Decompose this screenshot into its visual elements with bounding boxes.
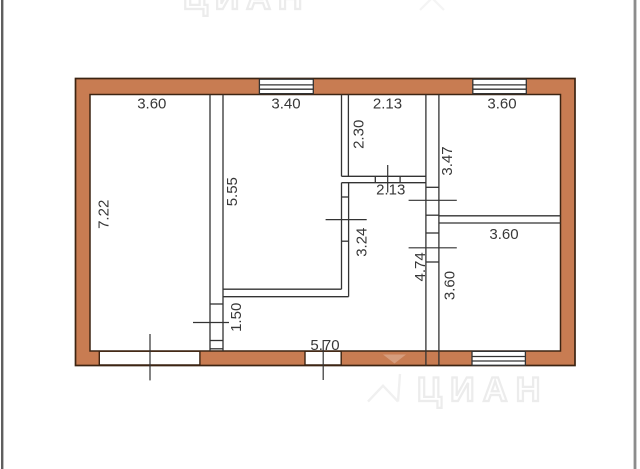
svg-text:5.70: 5.70 [310, 337, 339, 354]
door opening bottom-left (in bottom wall) [99, 351, 200, 366]
door jamb left [374, 176, 376, 182]
horizontal wall between 3.40 room and lower hall (y=289.2/296.7) [223, 289, 349, 297]
watermark logo mountain [368, 374, 400, 402]
dimension tick for opening A (x=150) [149, 334, 151, 380]
door jamb right [399, 176, 401, 182]
watermark top remnant letters [183, 0, 444, 17]
interior wall W2 (vertical x=341.5/348.4, upper part) [342, 95, 349, 177]
window top-left (3.40 room) [259, 79, 313, 94]
frame line left [1, 0, 3, 469]
window top-right (3.60 room) [473, 79, 527, 94]
W1 hatch rung 2 [210, 340, 223, 342]
interior wall W1 (left partition, vertical x=210/223) [210, 95, 223, 352]
door opening bottom-center (in bottom wall, 5.70 mark) [305, 351, 341, 366]
svg-text:ЦИАН: ЦИАН [417, 371, 549, 409]
interior wall W2b (vertical x=341.5/348.6, lower part) [342, 183, 349, 297]
svg-text:3.60: 3.60 [442, 271, 459, 300]
outer wall outline [76, 79, 576, 366]
central wall hatch rung 3 [426, 232, 439, 234]
svg-text:7.22: 7.22 [96, 200, 113, 229]
svg-text:3.47: 3.47 [439, 146, 456, 175]
outer wall orange ring [76, 79, 576, 366]
outer wall inner outline [90, 95, 561, 352]
svg-text:3.40: 3.40 [271, 95, 300, 112]
W1 hatch rung 3 [210, 348, 223, 350]
dimension tick across flue stack lower (y=247.8) [409, 247, 457, 249]
svg-text:2.13: 2.13 [373, 95, 402, 112]
frame line right [634, 0, 637, 469]
small room bottom wall with door (y=176.3/182.7) [342, 176, 426, 182]
W2b hatch rung 1 [342, 196, 349, 198]
central wall hatch rung 1 [426, 186, 439, 188]
svg-text:ЦИАН: ЦИАН [183, 0, 309, 17]
dimension tick across W2b / 3.24 (y=219.6) [326, 219, 367, 221]
W1 hatch rung 1 [210, 303, 223, 305]
svg-text:3.24: 3.24 [354, 228, 371, 257]
wall between right rooms (y=215.8/223) [439, 216, 561, 223]
window bottom-right (in bottom wall) [472, 351, 525, 366]
central wall hatch rung 4 [426, 261, 439, 263]
svg-text:5.55: 5.55 [224, 177, 241, 206]
dimension tick across flue stack upper (y=200.3) [409, 199, 457, 201]
W2b hatch rung 2 [342, 240, 349, 242]
central wall hatch rung 2 [426, 214, 439, 216]
dimension tick across W1 / 1.50 (y=322.5) [193, 322, 229, 324]
dimension tick for opening B / 5.70 (x=323.2) [322, 340, 324, 380]
svg-text:2.30: 2.30 [351, 120, 368, 149]
svg-text:2.13: 2.13 [376, 182, 405, 199]
svg-text:3.60: 3.60 [487, 95, 516, 112]
svg-text:3.60: 3.60 [137, 95, 166, 112]
watermark logo chevron over wall [383, 355, 406, 364]
central wall / flue stack (vertical x=425.9/438.9) [426, 95, 439, 366]
svg-text:1.50: 1.50 [228, 303, 245, 332]
dimension tick for door 2.13 (x=387.7) [387, 165, 389, 193]
svg-text:4.74: 4.74 [412, 252, 429, 281]
svg-text:3.60: 3.60 [489, 226, 518, 243]
